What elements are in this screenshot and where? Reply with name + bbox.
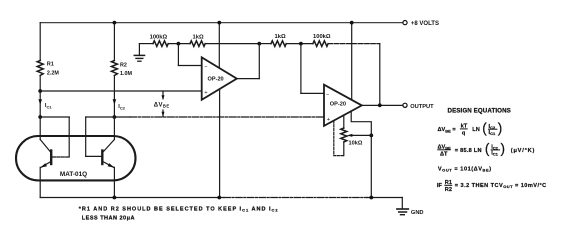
wire rail to R1 top: [39, 23, 41, 61]
wire node A to op-amp U1 +input: [40, 90, 202, 92]
wire 1k to U2 inverting node: [286, 43, 313, 45]
svg-text:IC1: IC1: [45, 103, 52, 109]
wire Q2 base: [86, 155, 103, 157]
wire 100k feedback to output node: [328, 43, 380, 45]
wire U1 inverting input drop: [177, 44, 179, 66]
terminal +8 VOLTS: [403, 21, 407, 25]
svg-text:−: −: [204, 64, 208, 70]
op-amp U1 OP-20: [202, 57, 237, 99]
svg-text:R1: R1: [47, 62, 54, 68]
node A junction (R1 / Q1 collector / U1 +in): [38, 89, 42, 93]
svg-text:+: +: [327, 117, 331, 123]
svg-text:+: +: [204, 90, 208, 96]
svg-text:ΔVBE: ΔVBE: [154, 102, 170, 108]
junction R2 top on +8V rail: [113, 21, 117, 25]
wire +8V supply rail (top): [40, 22, 403, 24]
svg-text:(μV/°K): (μV/°K): [511, 148, 535, 154]
svg-text:IC1: IC1: [489, 130, 496, 136]
svg-text:OUTPUT: OUTPUT: [410, 104, 434, 110]
wire U2 V+ pin stub from rail: [351, 23, 353, 99]
junction U2 V+ on rail: [350, 21, 354, 25]
svg-text:1kΩ: 1kΩ: [193, 35, 204, 41]
wire U1 output node to 1k input resistor: [259, 43, 271, 45]
wire U1 V+ pin stub from rail: [218, 23, 220, 68]
node U1 output feedback junction: [257, 42, 261, 46]
resistor R1 2.2M: [37, 61, 43, 76]
terminal OUTPUT: [403, 103, 407, 107]
svg-text:−: −: [326, 93, 330, 99]
ground symbol GND: [401, 198, 403, 209]
wire U2 V- pin path to ground rail: [351, 111, 371, 197]
wire 100k to U1 inverting node: [168, 43, 190, 45]
svg-text:ΔVBE =: ΔVBE =: [438, 127, 457, 133]
wire U1 output up to feedback node: [237, 78, 259, 80]
wire U2 output: [362, 104, 403, 106]
svg-text:100kΩ: 100kΩ: [150, 35, 168, 41]
svg-text:): ): [501, 141, 506, 156]
transistor pair package MAT-01Q: [16, 136, 136, 180]
wire node A down-leg to Q1 base: [40, 116, 69, 118]
svg-text:2.2M: 2.2M: [47, 70, 59, 76]
resistor 1k (U2 input): [271, 41, 286, 47]
svg-text:OP-20: OP-20: [330, 101, 346, 107]
svg-text:= 85.8 LN: = 85.8 LN: [455, 148, 482, 154]
svg-text:+8 VOLTS: +8 VOLTS: [411, 21, 439, 27]
svg-text:DESIGN EQUATIONS: DESIGN EQUATIONS: [448, 108, 511, 115]
svg-text:LESS THAN 20μA: LESS THAN 20μA: [82, 215, 135, 221]
junction Q2 emitter on ground rail: [113, 196, 117, 200]
wire 1k to U1 output node: [205, 43, 259, 45]
svg-text:(: (: [485, 141, 490, 156]
transistor Q1: [50, 151, 52, 165]
node B junction (R2 / Q2 collector / Q2 base tie): [113, 115, 117, 119]
wire R1 bottom to node A: [39, 76, 41, 92]
svg-text:q: q: [462, 131, 466, 137]
transistor Q2: [101, 151, 103, 165]
wiper arrow of 10k pot: [352, 134, 371, 136]
node A lower junction (Q1 base tie): [38, 115, 42, 119]
wire ground to 100k resistor: [139, 43, 153, 45]
wire ground rail (bottom): [40, 197, 224, 199]
current arrow IC2: [113, 99, 117, 105]
wire Q1 base (dashed): [53, 156, 70, 158]
node output junction: [378, 103, 382, 107]
svg-text:= 3.2 THEN TCVOUT = 10mV/°C: = 3.2 THEN TCVOUT = 10mV/°C: [455, 183, 547, 189]
node trim pot wiper junction: [369, 134, 373, 138]
svg-text:10kΩ: 10kΩ: [349, 141, 363, 147]
wire node B to op-amp U2 +input: [114, 116, 130, 118]
wire U2 inverting input drop: [300, 44, 302, 94]
svg-text:1.0M: 1.0M: [120, 71, 132, 77]
svg-text:ΔT: ΔT: [440, 152, 448, 158]
resistor R2 1.0M: [111, 61, 117, 76]
svg-text:*R1 AND R2 SHOULD BE SELECTED: *R1 AND R2 SHOULD BE SELECTED TO KEEP IC…: [79, 206, 279, 212]
label dVBE with measurement arrows: [162, 91, 164, 99]
svg-text:1kΩ: 1kΩ: [275, 34, 286, 40]
resistor 100k (U1 gain set): [153, 41, 168, 47]
svg-text:VOUT = 101(ΔVBE): VOUT = 101(ΔVBE): [438, 166, 492, 172]
current arrow IC1: [39, 91, 41, 117]
node U2 inverting input junction: [299, 42, 303, 46]
junction U2 V- on ground rail: [369, 196, 373, 200]
resistor 100k (U2 feedback): [313, 41, 328, 47]
svg-text:100kΩ: 100kΩ: [313, 34, 331, 40]
wire Q2 base loop: [85, 117, 87, 156]
svg-text:): ): [498, 120, 503, 135]
wire U1 V- pin stub to ground rail: [219, 90, 221, 198]
potentiometer 10k offset trim: [343, 115, 345, 128]
svg-text:IF: IF: [437, 183, 443, 189]
footnote text: [79, 206, 279, 221]
node U1 inverting input junction: [177, 42, 181, 46]
junction U1 V+ on rail: [217, 21, 221, 25]
wire Q1 emitter to ground rail: [39, 167, 41, 197]
op-amp U2 OP-20: [324, 85, 362, 126]
wire Q2 emitter to ground rail: [113, 167, 115, 197]
junction U1 V- on ground rail: [217, 196, 221, 200]
wire U2 null pin stub (dashed): [334, 121, 344, 156]
svg-text:R2: R2: [445, 187, 452, 193]
svg-text:LN: LN: [472, 127, 479, 133]
svg-text:GND: GND: [411, 210, 424, 216]
svg-text:(: (: [482, 120, 487, 135]
ground symbol (at 100k gain resistor): [138, 44, 140, 56]
svg-text:IC2: IC2: [118, 104, 125, 110]
svg-text:OP-20: OP-20: [208, 77, 224, 83]
design equations text block: [437, 108, 547, 193]
wire rail to R2 top: [113, 23, 115, 61]
wire R2 bottom to node B: [113, 76, 115, 118]
svg-text:IC1: IC1: [491, 151, 498, 157]
svg-text:MAT-01Q: MAT-01Q: [60, 171, 87, 178]
svg-text:R2: R2: [120, 62, 127, 68]
resistor 1k (U1 feedback): [190, 41, 205, 47]
